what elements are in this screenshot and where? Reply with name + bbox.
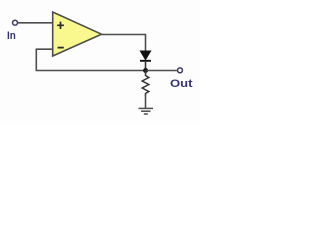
junction node bbox=[143, 68, 148, 73]
wire op-amp output bbox=[102, 35, 146, 52]
wire feedback bottom bbox=[36, 70, 146, 72]
wire In to non-inverting input bbox=[18, 22, 53, 24]
svg-text:In: In bbox=[7, 30, 16, 42]
node Out bbox=[178, 68, 183, 73]
diode D1 bbox=[140, 51, 151, 71]
ground bbox=[139, 108, 154, 114]
wire resistor to ground bbox=[145, 95, 147, 108]
op-amp U1 bbox=[53, 12, 102, 56]
pin - (inverting) bbox=[58, 47, 64, 49]
resistor R1 bbox=[142, 71, 149, 96]
wire feedback vertical bbox=[35, 49, 37, 71]
wire junction to Out bbox=[146, 70, 178, 72]
svg-text:Out: Out bbox=[170, 78, 193, 90]
wire inverting input to feedback bbox=[36, 48, 53, 50]
pin + (non-inverting) bbox=[57, 22, 64, 29]
node In bbox=[13, 20, 18, 25]
